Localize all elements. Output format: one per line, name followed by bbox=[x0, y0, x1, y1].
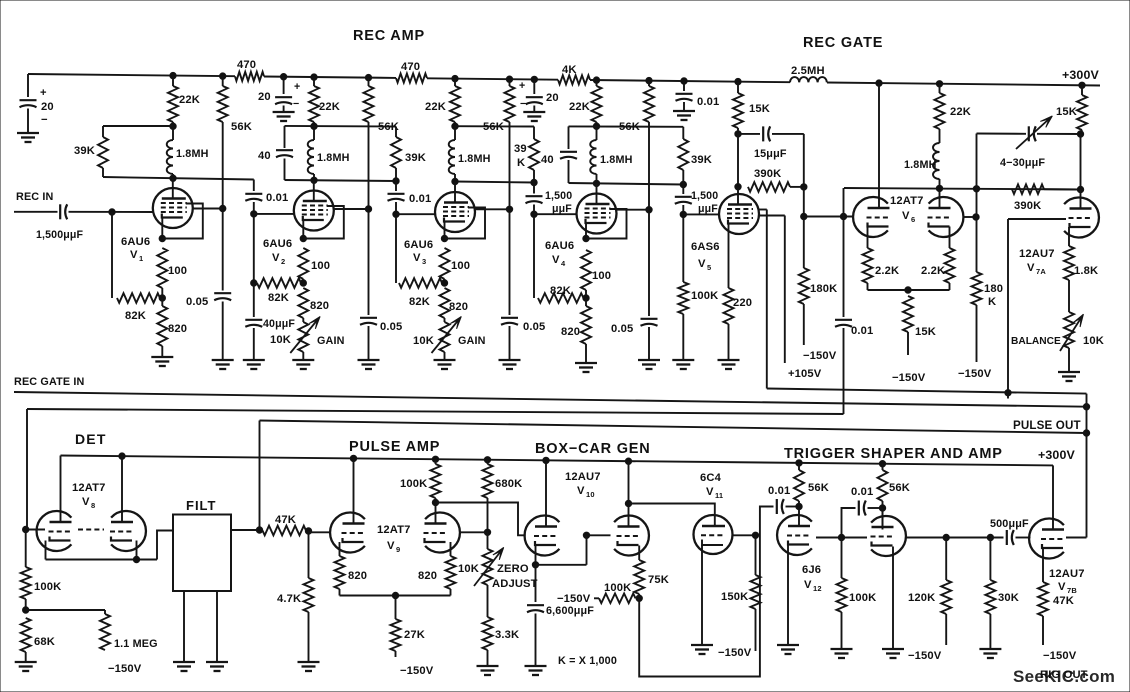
svg-text:μμF: μμF bbox=[552, 203, 572, 215]
svg-text:FILT: FILT bbox=[186, 498, 216, 513]
svg-text:30K: 30K bbox=[998, 592, 1019, 604]
svg-text:820: 820 bbox=[348, 570, 367, 582]
svg-text:20: 20 bbox=[546, 92, 559, 104]
svg-text:120K: 120K bbox=[908, 592, 935, 604]
svg-text:6AU6: 6AU6 bbox=[121, 236, 150, 248]
svg-text:V: V bbox=[706, 486, 714, 498]
svg-text:0.01: 0.01 bbox=[851, 325, 873, 337]
svg-text:82K: 82K bbox=[125, 310, 146, 322]
svg-text:1.8MH: 1.8MH bbox=[458, 153, 491, 165]
svg-text:REC GATE IN: REC GATE IN bbox=[14, 376, 84, 388]
svg-text:68K: 68K bbox=[34, 636, 55, 648]
svg-text:39K: 39K bbox=[405, 152, 426, 164]
svg-text:V: V bbox=[552, 254, 560, 266]
svg-text:+: + bbox=[294, 81, 300, 93]
svg-text:12AT7: 12AT7 bbox=[377, 524, 411, 536]
svg-text:K = X 1,000: K = X 1,000 bbox=[558, 655, 617, 667]
svg-text:22K: 22K bbox=[569, 101, 590, 113]
svg-text:1.1 MEG: 1.1 MEG bbox=[114, 638, 158, 650]
svg-text:1,500μμF: 1,500μμF bbox=[36, 229, 84, 241]
svg-text:+: + bbox=[519, 80, 525, 92]
svg-text:9: 9 bbox=[396, 545, 400, 554]
svg-text:4: 4 bbox=[561, 259, 566, 268]
svg-text:PULSE OUT: PULSE OUT bbox=[1013, 419, 1081, 432]
svg-text:22K: 22K bbox=[950, 106, 971, 118]
svg-text:−150V: −150V bbox=[718, 647, 752, 659]
svg-text:DET: DET bbox=[75, 431, 107, 447]
svg-text:−150V: −150V bbox=[908, 650, 942, 662]
svg-text:10K: 10K bbox=[413, 335, 434, 347]
svg-text:180: 180 bbox=[984, 283, 1003, 295]
svg-text:V: V bbox=[413, 252, 421, 264]
svg-text:56K: 56K bbox=[231, 121, 252, 133]
svg-text:82K: 82K bbox=[268, 292, 289, 304]
svg-text:1,500: 1,500 bbox=[691, 190, 718, 202]
svg-text:6AU6: 6AU6 bbox=[263, 238, 292, 250]
svg-text:390K: 390K bbox=[1014, 200, 1041, 212]
svg-text:56K: 56K bbox=[808, 482, 829, 494]
svg-text:BALANCE: BALANCE bbox=[1011, 336, 1061, 347]
svg-text:+300V: +300V bbox=[1062, 68, 1100, 82]
svg-text:500μμF: 500μμF bbox=[990, 518, 1029, 530]
svg-text:K: K bbox=[988, 296, 996, 308]
svg-text:15K: 15K bbox=[749, 103, 770, 115]
svg-text:11: 11 bbox=[715, 491, 723, 500]
svg-text:V: V bbox=[698, 258, 706, 270]
svg-text:0.01: 0.01 bbox=[851, 486, 873, 498]
svg-text:820: 820 bbox=[418, 570, 437, 582]
svg-text:3.3K: 3.3K bbox=[495, 629, 519, 641]
svg-text:V: V bbox=[387, 540, 395, 552]
svg-text:BOX−CAR GEN: BOX−CAR GEN bbox=[535, 441, 651, 457]
svg-text:−150V: −150V bbox=[1043, 650, 1077, 662]
svg-text:V: V bbox=[1058, 581, 1066, 593]
svg-text:100K: 100K bbox=[34, 581, 61, 593]
svg-text:REC GATE: REC GATE bbox=[803, 35, 883, 51]
svg-text:−150V: −150V bbox=[803, 350, 837, 362]
svg-text:2.2K: 2.2K bbox=[921, 265, 945, 277]
svg-text:−: − bbox=[293, 98, 299, 110]
svg-text:−: − bbox=[520, 98, 526, 110]
svg-text:820: 820 bbox=[449, 301, 468, 313]
svg-text:100: 100 bbox=[311, 260, 330, 272]
svg-text:820: 820 bbox=[561, 326, 580, 338]
svg-text:6,600μμF: 6,600μμF bbox=[546, 605, 594, 617]
svg-text:μμF: μμF bbox=[698, 203, 718, 215]
svg-text:−: − bbox=[41, 114, 48, 126]
svg-text:82K: 82K bbox=[550, 285, 571, 297]
svg-text:1.8K: 1.8K bbox=[1074, 265, 1098, 277]
svg-text:+300V: +300V bbox=[1038, 448, 1076, 462]
svg-text:1.8MH: 1.8MH bbox=[317, 152, 350, 164]
svg-text:V: V bbox=[902, 210, 910, 222]
svg-text:820: 820 bbox=[310, 300, 329, 312]
svg-text:12: 12 bbox=[813, 584, 822, 593]
svg-text:100: 100 bbox=[168, 265, 187, 277]
svg-text:0.05: 0.05 bbox=[611, 323, 633, 335]
svg-text:100K: 100K bbox=[604, 582, 631, 594]
svg-text:75K: 75K bbox=[648, 574, 669, 586]
svg-text:4K: 4K bbox=[562, 64, 577, 76]
svg-text:REC IN: REC IN bbox=[16, 191, 54, 203]
svg-text:680K: 680K bbox=[495, 478, 522, 490]
svg-text:0.05: 0.05 bbox=[380, 321, 402, 333]
svg-text:39K: 39K bbox=[691, 154, 712, 166]
svg-text:+105V: +105V bbox=[788, 368, 822, 380]
svg-text:0.01: 0.01 bbox=[409, 193, 431, 205]
svg-text:2.2K: 2.2K bbox=[875, 265, 899, 277]
svg-text:5: 5 bbox=[707, 263, 711, 272]
svg-text:GAIN: GAIN bbox=[458, 335, 486, 347]
svg-text:V: V bbox=[272, 252, 280, 264]
svg-text:470: 470 bbox=[237, 59, 256, 71]
svg-text:0.05: 0.05 bbox=[186, 296, 208, 308]
svg-text:−150V: −150V bbox=[400, 665, 434, 677]
svg-text:1.8MH: 1.8MH bbox=[904, 159, 937, 171]
svg-text:470: 470 bbox=[401, 61, 420, 73]
svg-text:V: V bbox=[130, 249, 138, 261]
svg-text:TRIGGER SHAPER AND AMP: TRIGGER SHAPER AND AMP bbox=[784, 446, 1003, 462]
svg-text:20: 20 bbox=[41, 101, 54, 113]
svg-text:15μμF: 15μμF bbox=[754, 148, 787, 160]
svg-text:K: K bbox=[517, 157, 525, 169]
svg-text:−150V: −150V bbox=[892, 372, 926, 384]
svg-text:39: 39 bbox=[514, 143, 527, 155]
svg-text:6J6: 6J6 bbox=[802, 564, 821, 576]
svg-text:3: 3 bbox=[422, 257, 426, 266]
svg-text:27K: 27K bbox=[404, 629, 425, 641]
svg-text:12AU7: 12AU7 bbox=[1019, 248, 1055, 260]
svg-text:82K: 82K bbox=[409, 296, 430, 308]
svg-text:−150V: −150V bbox=[557, 593, 591, 605]
svg-text:6AU6: 6AU6 bbox=[404, 239, 433, 251]
svg-text:56K: 56K bbox=[483, 121, 504, 133]
svg-text:1,500: 1,500 bbox=[545, 190, 572, 202]
svg-text:39K: 39K bbox=[74, 145, 95, 157]
svg-text:0.01: 0.01 bbox=[266, 192, 288, 204]
svg-text:100K: 100K bbox=[400, 478, 427, 490]
svg-text:12AT7: 12AT7 bbox=[890, 195, 924, 207]
svg-text:6C4: 6C4 bbox=[700, 472, 722, 484]
svg-text:−150V: −150V bbox=[108, 663, 142, 675]
svg-text:220: 220 bbox=[733, 297, 752, 309]
svg-text:0.01: 0.01 bbox=[768, 485, 790, 497]
svg-text:V: V bbox=[804, 579, 812, 591]
svg-text:6AS6: 6AS6 bbox=[691, 241, 720, 253]
svg-text:20: 20 bbox=[258, 91, 271, 103]
svg-text:180K: 180K bbox=[810, 283, 837, 295]
svg-text:PULSE AMP: PULSE AMP bbox=[349, 439, 440, 455]
svg-text:10K: 10K bbox=[1083, 335, 1104, 347]
svg-text:7B: 7B bbox=[1067, 586, 1077, 595]
svg-text:V: V bbox=[577, 485, 585, 497]
svg-text:22K: 22K bbox=[179, 94, 200, 106]
svg-text:V: V bbox=[82, 496, 90, 508]
svg-text:10K: 10K bbox=[458, 563, 479, 575]
svg-text:−150V: −150V bbox=[958, 368, 992, 380]
svg-text:15K: 15K bbox=[915, 326, 936, 338]
svg-text:22K: 22K bbox=[425, 101, 446, 113]
svg-text:ZERO: ZERO bbox=[497, 563, 529, 575]
svg-text:12AT7: 12AT7 bbox=[72, 482, 106, 494]
svg-text:1.8MH: 1.8MH bbox=[600, 154, 633, 166]
svg-text:12AU7: 12AU7 bbox=[565, 471, 601, 483]
svg-text:7A: 7A bbox=[1036, 267, 1046, 276]
svg-text:100K: 100K bbox=[691, 290, 718, 302]
svg-text:40: 40 bbox=[258, 150, 271, 162]
svg-text:+: + bbox=[40, 87, 47, 99]
svg-text:REC AMP: REC AMP bbox=[353, 28, 425, 44]
svg-text:56K: 56K bbox=[889, 482, 910, 494]
svg-text:22K: 22K bbox=[319, 101, 340, 113]
svg-text:100: 100 bbox=[592, 270, 611, 282]
svg-text:150K: 150K bbox=[721, 591, 748, 603]
svg-text:2.5MH: 2.5MH bbox=[791, 65, 825, 77]
svg-text:6AU6: 6AU6 bbox=[545, 240, 574, 252]
svg-text:56K: 56K bbox=[619, 121, 640, 133]
svg-text:6: 6 bbox=[911, 215, 915, 224]
svg-text:V: V bbox=[1027, 262, 1035, 274]
svg-text:10: 10 bbox=[586, 490, 595, 499]
svg-text:4.7K: 4.7K bbox=[277, 593, 301, 605]
svg-text:SeeKIC.com: SeeKIC.com bbox=[1013, 667, 1115, 686]
svg-text:4−30μμF: 4−30μμF bbox=[1000, 157, 1045, 169]
svg-text:8: 8 bbox=[91, 501, 95, 510]
svg-text:100K: 100K bbox=[849, 592, 876, 604]
svg-text:47K: 47K bbox=[275, 514, 296, 526]
svg-text:15K: 15K bbox=[1056, 106, 1077, 118]
svg-text:100: 100 bbox=[451, 260, 470, 272]
svg-text:0.01: 0.01 bbox=[697, 96, 719, 108]
svg-text:GAIN: GAIN bbox=[317, 335, 345, 347]
svg-text:40μμF: 40μμF bbox=[263, 318, 295, 330]
svg-text:12AU7: 12AU7 bbox=[1049, 568, 1085, 580]
svg-text:40: 40 bbox=[541, 154, 554, 166]
svg-text:47K: 47K bbox=[1053, 595, 1074, 607]
svg-text:10K: 10K bbox=[270, 334, 291, 346]
svg-text:820: 820 bbox=[168, 323, 187, 335]
svg-text:1: 1 bbox=[139, 254, 143, 263]
svg-text:390K: 390K bbox=[754, 168, 781, 180]
svg-text:0.05: 0.05 bbox=[523, 321, 545, 333]
svg-text:1.8MH: 1.8MH bbox=[176, 148, 209, 160]
svg-text:2: 2 bbox=[281, 257, 285, 266]
svg-text:ADJUST: ADJUST bbox=[492, 578, 538, 590]
